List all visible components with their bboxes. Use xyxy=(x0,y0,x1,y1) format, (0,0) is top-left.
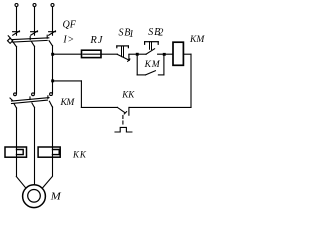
svg-text:QF: QF xyxy=(63,20,77,31)
svg-text:SB1: SB1 xyxy=(119,27,135,39)
svg-text:I>: I> xyxy=(62,35,74,46)
svg-text:M: M xyxy=(50,192,63,203)
svg-text:KM: KM xyxy=(189,35,205,45)
svg-text:KK: KK xyxy=(121,90,135,100)
svg-text:KK: KK xyxy=(72,149,87,159)
svg-text:SB2: SB2 xyxy=(148,27,164,39)
svg-text:RJ: RJ xyxy=(89,35,103,46)
svg-text:KM: KM xyxy=(60,98,76,108)
svg-text:KM: KM xyxy=(144,60,161,70)
